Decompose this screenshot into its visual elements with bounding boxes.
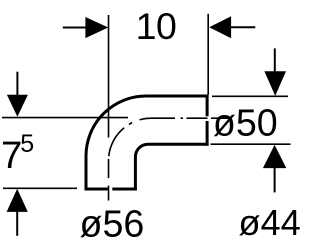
pipe inner wall (bottom of horizontal arm + inner corner arc + right edge of vertical arm) [135,144,208,190]
dim 7.5 top arrow tail [16,72,18,96]
dim 7.5 bottom arrowhead (points up) [7,189,28,212]
svg-text:ø44: ø44 [238,202,300,243]
pipe right end edge (lower segment) [206,121,209,146]
dim 10 left arrow tail [63,27,87,29]
pipe right end edge (upper segment) [206,95,209,117]
extension line for dim 7.5 (bottom) [3,187,77,189]
dim 7.5 bottom arrow tail [16,212,18,236]
dia 44 up arrow tail [274,168,276,193]
dia 44 up arrowhead (points up) [263,145,286,168]
pipe bottom end edge (right segment) [112,188,137,191]
svg-text:ø56: ø56 [80,202,145,244]
dia 50 down arrowhead (points down) [264,71,286,96]
svg-text:ø50: ø50 [213,102,278,144]
dim 10 right arrow tail [231,26,256,28]
dim 10 left arrowhead (points right) [85,17,108,38]
svg-text:5: 5 [20,130,34,158]
extension line for dim 10 (right, vertical at pipe end) [207,14,209,95]
pipe elbow outer wall (left edge + outer bend arc + top edge) [86,96,209,191]
pipe bottom end edge (left segment) [85,188,108,191]
horizontal centerline / extension for dim 7.5 (solid left part) [2,117,128,119]
dim 7.5 top arrowhead (points down) [7,95,28,117]
svg-text:10: 10 [136,5,177,47]
pipe centerline (dash-dot): horizontal arm, bend arc, vertical arm [109,118,231,200]
extension line for dia 50 (top) [212,95,288,97]
dia 50 down arrow tail [274,48,276,72]
extension line for dim 10 (left, vertical solid, continues as pipe centerline) [108,15,110,138]
svg-text:7: 7 [1,134,22,177]
dim 10 right arrowhead (points left) [209,16,231,38]
extension line for dia 50 (bottom) [211,143,291,145]
